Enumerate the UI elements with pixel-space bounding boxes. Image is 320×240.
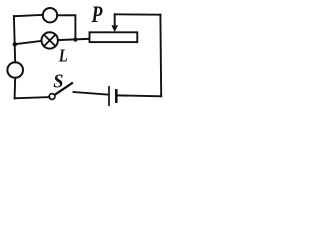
- battery: long thin plate (positive): [108, 87, 110, 105]
- meter (top circle): [43, 8, 57, 22]
- wire: bottom left to switch: [15, 97, 50, 98]
- rheostat slider arrowhead: [111, 25, 118, 32]
- rheostat slider stem: [114, 14, 116, 27]
- wire: top branch left: [14, 15, 43, 16]
- switch S: blade: [54, 83, 72, 95]
- wire: lamp branch left: [15, 41, 42, 44]
- svg-text:L: L: [58, 45, 68, 66]
- rheostat P (resistor body): [90, 32, 138, 42]
- lamp L (circle): [42, 32, 58, 48]
- switch S: pivot circle: [49, 94, 55, 100]
- svg-text:S: S: [53, 71, 63, 93]
- wire: bottom right to battery: [118, 94, 162, 97]
- wire: left vertical lower segment: [14, 78, 17, 99]
- wire: lamp branch right to rheostat: [58, 39, 90, 40]
- wire: battery to switch: [74, 92, 108, 95]
- wire: slider to top right: [115, 13, 161, 15]
- node: junction of top branch and lamp branch: [73, 38, 77, 42]
- wire: left vertical upper segment: [14, 16, 15, 62]
- node: junction on left vertical: [13, 42, 17, 46]
- meter (left circle): [7, 62, 23, 78]
- wire: top branch right with drop to node: [57, 15, 75, 39]
- lamp L (cross): [44, 35, 55, 46]
- svg-text:P: P: [91, 3, 103, 28]
- battery: short thick plate (negative): [115, 90, 118, 101]
- wire: right vertical: [159, 15, 162, 97]
